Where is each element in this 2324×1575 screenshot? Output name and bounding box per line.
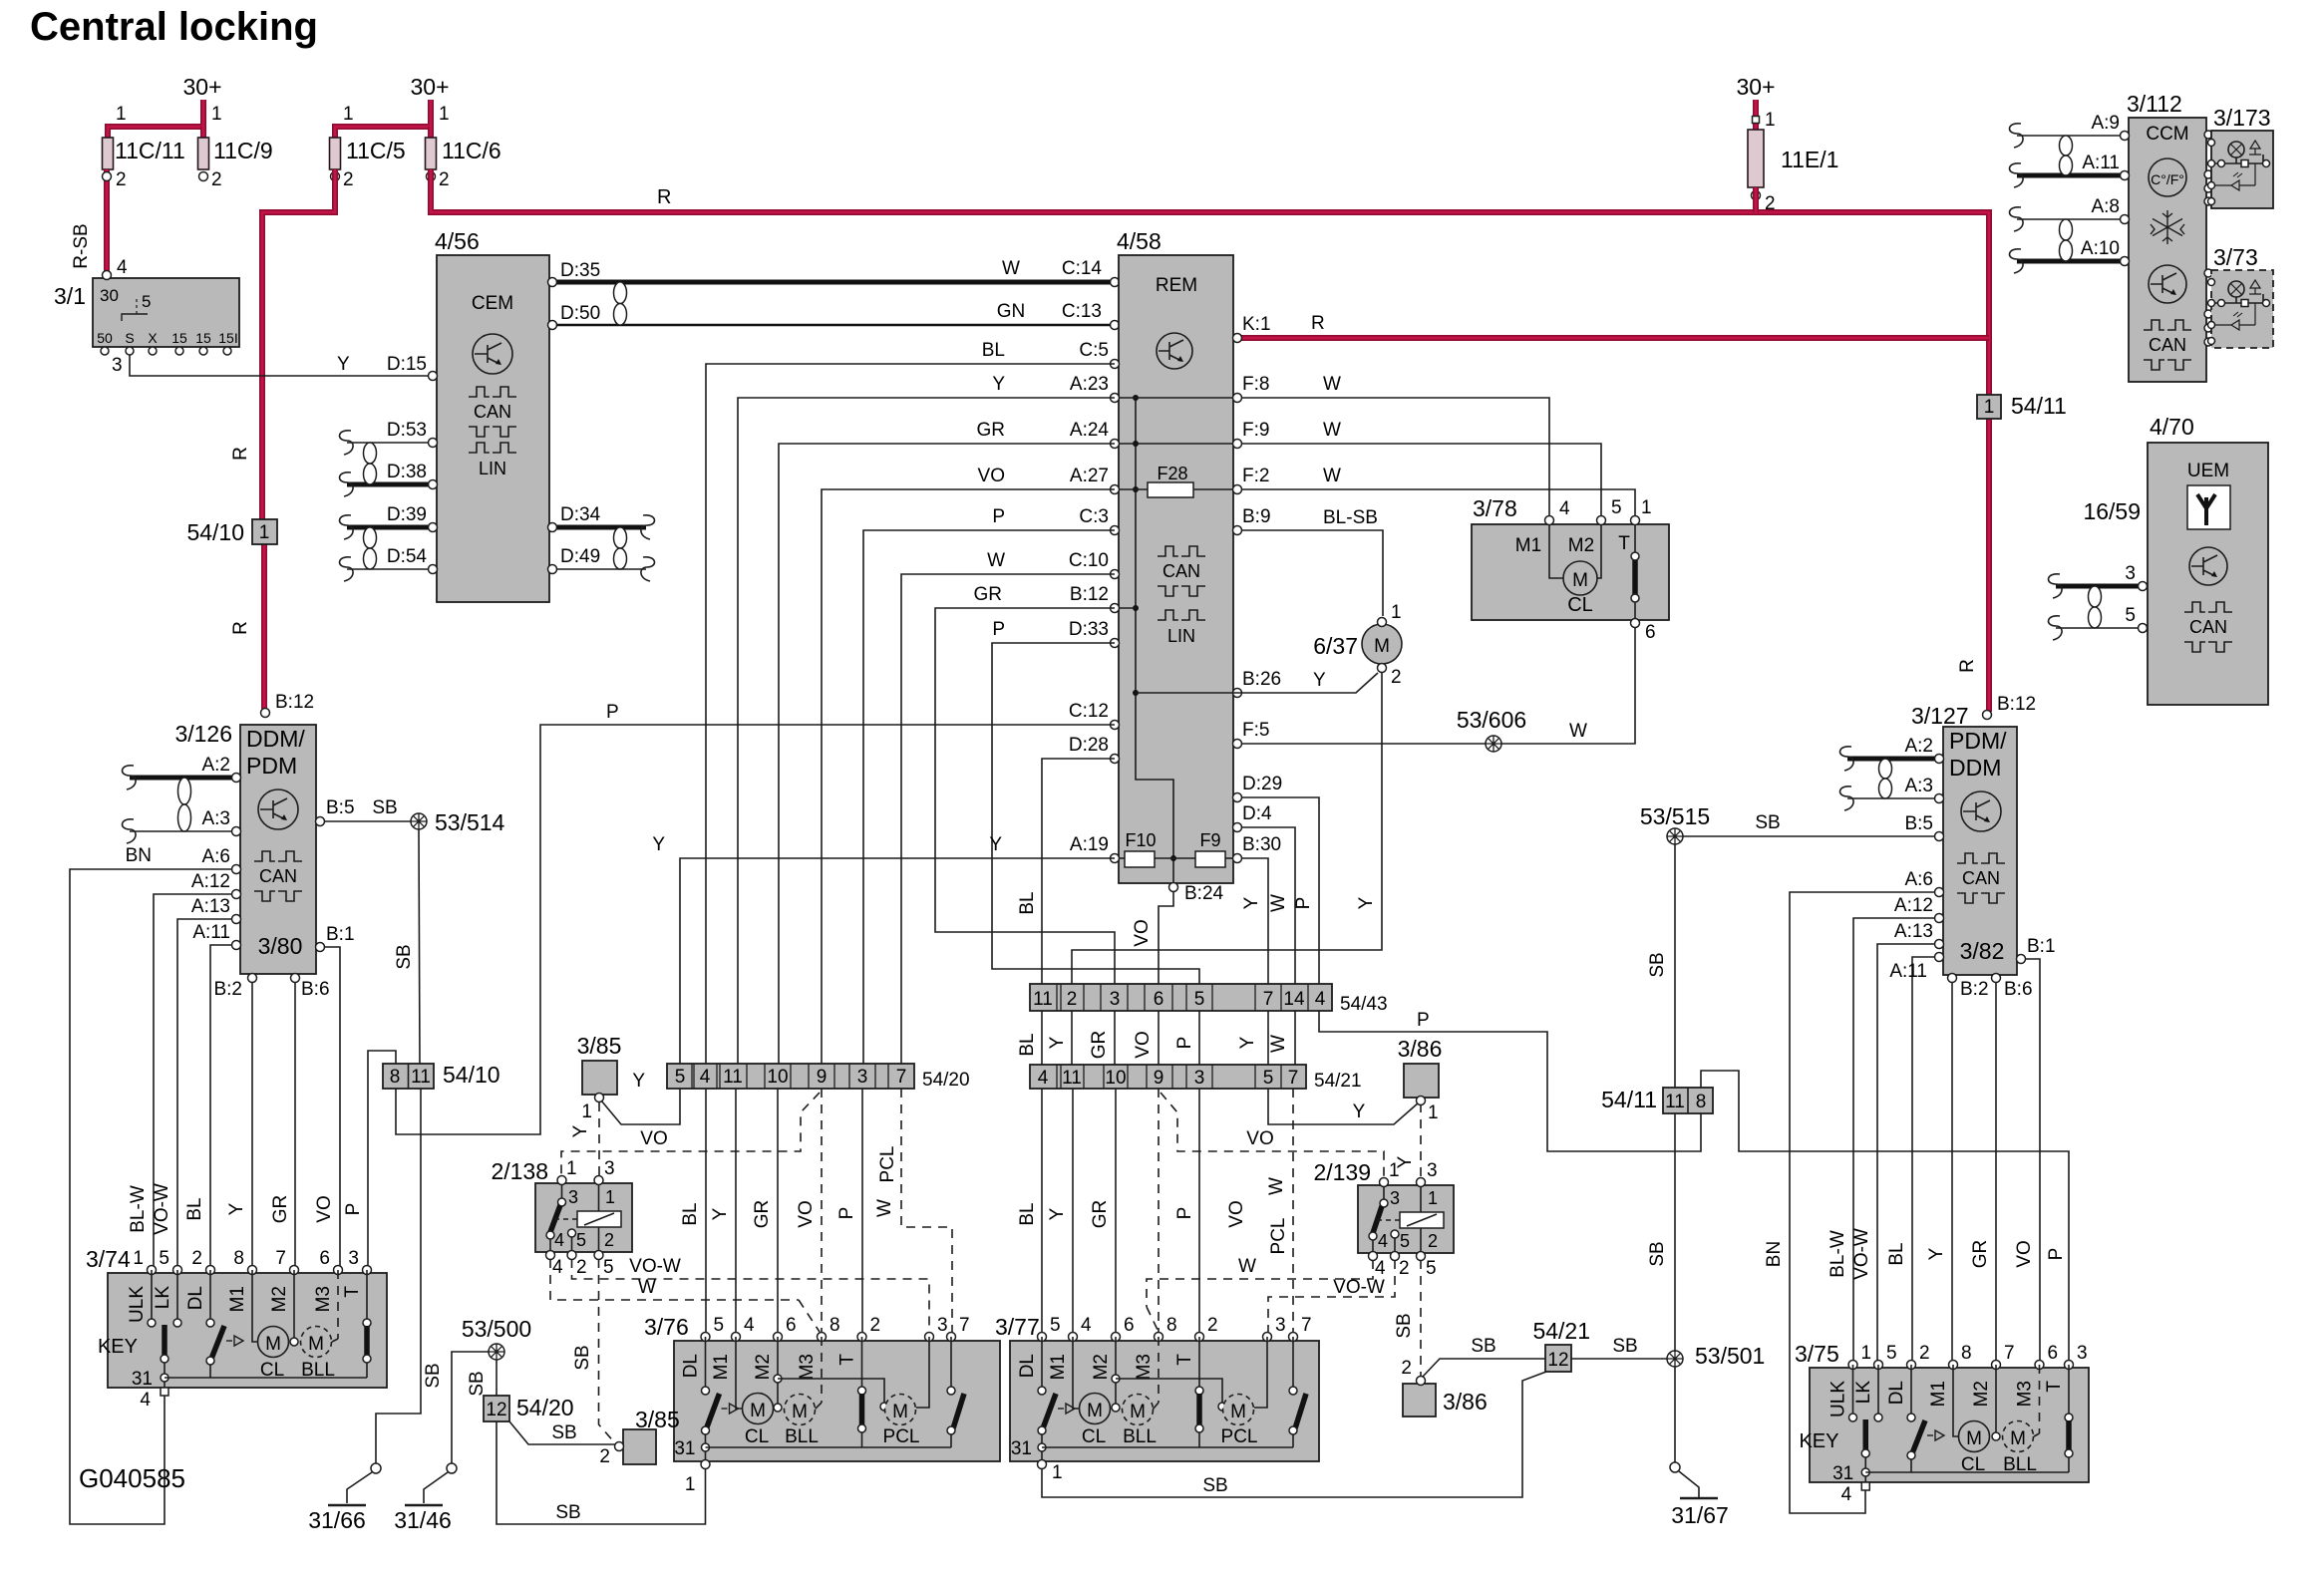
- svg-text:M: M: [308, 1334, 324, 1355]
- wire P REM D:33 to 54/43 pin 5: [992, 643, 1199, 984]
- svg-text:3/78: 3/78: [1473, 495, 1517, 521]
- CEM pins D:39 D:54 twisted pair: [347, 525, 433, 530]
- svg-text:P: P: [606, 702, 619, 723]
- upper electronic module UEM 4/70: [2148, 443, 2268, 705]
- ignition switch position icon: [122, 314, 148, 321]
- wire Y 54/43 pin 7 to 54/21 pin 5: [1267, 1011, 1269, 1065]
- CCM pins A:9 A:11 twisted pair: [2017, 135, 2125, 137]
- svg-text:S: S: [125, 330, 134, 346]
- svg-text:F:5: F:5: [1242, 720, 1269, 741]
- svg-text:F:8: F:8: [1242, 374, 1269, 395]
- svg-text:2: 2: [1428, 1231, 1438, 1251]
- svg-text:1: 1: [116, 104, 127, 125]
- wire Y 3/85 pin 1 to 54/20 pin 5: [601, 1089, 680, 1124]
- svg-text:GR: GR: [752, 1200, 773, 1229]
- 3/75 M3 wire: [2039, 1365, 2041, 1433]
- svg-text:7: 7: [1263, 989, 1274, 1010]
- svg-text:Y: Y: [1353, 1102, 1366, 1122]
- svg-text:3/74: 3/74: [86, 1246, 131, 1272]
- svg-text:1: 1: [1391, 602, 1402, 623]
- svg-text:54/21: 54/21: [1532, 1318, 1590, 1344]
- svg-text:3/126: 3/126: [174, 721, 232, 747]
- svg-text:VO: VO: [1133, 1031, 1154, 1058]
- svg-text:LIN: LIN: [479, 459, 506, 478]
- 3/75 motor BLL: [1992, 1432, 2000, 1440]
- svg-text:F:9: F:9: [1242, 420, 1269, 441]
- svg-text:R: R: [1957, 659, 1978, 673]
- 3/76 M3 wire: [821, 1337, 823, 1403]
- svg-text:M: M: [892, 1402, 908, 1422]
- connector 54/20: [667, 1064, 914, 1089]
- svg-text:M: M: [1966, 1428, 1982, 1449]
- svg-text:2: 2: [439, 169, 450, 190]
- svg-text:CL: CL: [1082, 1426, 1106, 1447]
- svg-text:5: 5: [1400, 1231, 1410, 1251]
- svg-text:P: P: [1417, 1010, 1430, 1031]
- PDM pins A:2 A:3 twisted pair: [1847, 757, 1939, 762]
- svg-text:W: W: [1323, 420, 1341, 441]
- svg-text:T: T: [1618, 533, 1630, 554]
- 3/75 pin 4: [1861, 1482, 1869, 1490]
- svg-text:DDM: DDM: [1949, 755, 2001, 781]
- PDM pin B:2 wire Y to 3/75 pin 8: [1951, 978, 1953, 1361]
- splice 53/514: [411, 813, 427, 829]
- svg-text:M: M: [792, 1402, 808, 1422]
- svg-text:B:1: B:1: [326, 924, 355, 945]
- CCM snowflake icon: [2151, 210, 2184, 244]
- 3/74 M3 wire: [337, 1270, 339, 1339]
- svg-text:M2: M2: [1971, 1381, 1992, 1407]
- wire P 54/21 pin 3 to 3/77 pin 2: [1198, 1089, 1200, 1334]
- svg-text:BL-SB: BL-SB: [1323, 507, 1378, 528]
- svg-text:7: 7: [1288, 1068, 1299, 1089]
- wire R fuse 11C/5 to connector 54/10 pin 1 to DDM B:12: [262, 169, 335, 519]
- svg-text:11: 11: [1033, 989, 1053, 1010]
- svg-text:PDM/: PDM/: [1949, 728, 2007, 754]
- svg-text:W: W: [1238, 1256, 1256, 1277]
- svg-text:SB: SB: [1202, 1475, 1227, 1496]
- svg-text:D:34: D:34: [560, 504, 601, 525]
- svg-text:31/67: 31/67: [1671, 1502, 1729, 1528]
- UEM antenna icon: [2187, 485, 2230, 529]
- 3/74 KEY switch: [151, 1270, 153, 1321]
- wire SB 53/501 to connector 54/21 pin 12: [1571, 1358, 1667, 1360]
- svg-text:7: 7: [1301, 1315, 1312, 1336]
- ignition switch 3/1: [93, 278, 239, 347]
- svg-text:8: 8: [1696, 1092, 1707, 1112]
- svg-text:BL: BL: [680, 1202, 701, 1225]
- svg-text:B:26: B:26: [1242, 669, 1281, 690]
- svg-text:11: 11: [1062, 1068, 1082, 1089]
- 3/76 motor PCL: [880, 1403, 888, 1411]
- CEM LIN icon: [469, 443, 516, 453]
- svg-text:D:33: D:33: [1069, 619, 1109, 640]
- svg-text:M1: M1: [1515, 535, 1541, 556]
- svg-text:PCL: PCL: [877, 1146, 898, 1183]
- svg-text:5: 5: [1194, 989, 1205, 1010]
- svg-text:BL-W: BL-W: [128, 1185, 149, 1233]
- 3/75 DL switch: [1910, 1365, 1912, 1416]
- wire W CEM D:35 to REM C:14 (bus): [552, 280, 1115, 285]
- wire SB splice 53/515 through 54/11 pin 11 to splice 53/501: [1674, 844, 1676, 1088]
- svg-text:M: M: [265, 1334, 281, 1355]
- 3/76 switch T: [861, 1337, 863, 1389]
- svg-text:2: 2: [211, 169, 222, 190]
- svg-text:SB: SB: [1394, 1313, 1415, 1338]
- lighting unit 3/173: [2211, 131, 2273, 208]
- svg-text:Y: Y: [1313, 670, 1326, 691]
- 3/77 M3 wire: [1158, 1337, 1160, 1403]
- svg-text:GR: GR: [270, 1195, 291, 1224]
- svg-text:Central locking: Central locking: [30, 5, 318, 49]
- svg-text:BL-W: BL-W: [1827, 1230, 1848, 1278]
- wire GR 54/21 pin 10 to 3/77 pin 6: [1115, 1089, 1117, 1334]
- svg-text:ULK: ULK: [1828, 1381, 1849, 1417]
- wire VO branch 54/20 pin 9 to relay 2/138 pin 1: [561, 1093, 820, 1180]
- svg-text:8: 8: [233, 1248, 244, 1269]
- 3/77 motor BLL: [1123, 1395, 1154, 1425]
- svg-text:D:29: D:29: [1242, 774, 1282, 794]
- wire Y 3/86 pin 1 to relay 2/139 pin 3 (dashed): [1420, 1103, 1422, 1180]
- PDM pin A:12 wire BL-W to 3/75 pin 1: [1853, 918, 1939, 1361]
- wire W REM F:9 to 3/78 pin 5: [1241, 444, 1601, 517]
- svg-text:B:6: B:6: [301, 979, 330, 1000]
- DDM pin B:1 wire VO to 3/74 pin 6: [320, 947, 340, 1266]
- svg-text:C:10: C:10: [1069, 550, 1109, 571]
- svg-text:A:12: A:12: [191, 871, 230, 892]
- svg-text:3: 3: [348, 1248, 359, 1269]
- wire SB relay 2/139 pin 2 to 3/86 pin 2 (dashed): [1420, 1260, 1422, 1377]
- wire PCL 54/20 pin 7 to 3/76 pin 7: [901, 1089, 952, 1334]
- svg-text:A:9: A:9: [2091, 113, 2120, 134]
- svg-text:4: 4: [1081, 1315, 1092, 1336]
- svg-text:B:2: B:2: [1960, 979, 1989, 1000]
- svg-text:2: 2: [870, 1315, 881, 1336]
- svg-text:2: 2: [1207, 1315, 1218, 1336]
- relay 2/139 coil: [1400, 1212, 1444, 1228]
- svg-text:P: P: [2046, 1248, 2067, 1261]
- svg-text:1: 1: [1861, 1343, 1872, 1364]
- svg-text:5: 5: [1050, 1315, 1061, 1336]
- wire Y REM B:30 to 54/43 pin 7: [1241, 858, 1268, 984]
- svg-text:VO: VO: [2014, 1240, 2035, 1267]
- wire R-SB fuse 11C/11 pin 2 to 3/1 pin 4: [104, 169, 110, 271]
- 3/77 DL switch: [1041, 1337, 1043, 1389]
- svg-text:4: 4: [700, 1067, 711, 1088]
- 3/77 pin 1: [1038, 1460, 1047, 1469]
- svg-text:W: W: [1323, 374, 1341, 395]
- svg-text:B:6: B:6: [2004, 979, 2033, 1000]
- svg-text:1: 1: [439, 104, 450, 125]
- svg-text:30: 30: [100, 286, 119, 305]
- svg-text:CEM: CEM: [472, 293, 513, 314]
- svg-text:VO: VO: [1226, 1200, 1247, 1227]
- svg-text:11: 11: [723, 1067, 743, 1088]
- svg-text:A:11: A:11: [2082, 153, 2120, 173]
- svg-text:P: P: [992, 619, 1005, 640]
- svg-text:CAN: CAN: [259, 866, 297, 886]
- svg-text:A:13: A:13: [191, 896, 230, 917]
- wire GN CEM D:50 to REM C:13 (bus): [552, 324, 1115, 327]
- svg-text:54/11: 54/11: [1601, 1087, 1657, 1112]
- wire VO-W relay 2/139 pin 5 to 3/77 pin 3: [1268, 1260, 1395, 1334]
- wire R fuse 11C/6 long feed to right side: [431, 169, 1989, 712]
- svg-text:T: T: [1174, 1354, 1195, 1366]
- svg-text:4/58: 4/58: [1117, 228, 1162, 254]
- relay 2/138 coil: [577, 1211, 621, 1227]
- svg-text:54/20: 54/20: [922, 1070, 970, 1091]
- svg-text:4: 4: [1559, 498, 1570, 519]
- svg-text:1: 1: [1765, 110, 1776, 131]
- svg-text:53/514: 53/514: [435, 809, 505, 835]
- svg-text:T: T: [2044, 1381, 2065, 1393]
- fuse 11C/6: [426, 138, 437, 169]
- svg-text:F:2: F:2: [1242, 466, 1269, 486]
- svg-text:A:3: A:3: [201, 808, 230, 829]
- svg-text:8: 8: [1961, 1343, 1972, 1364]
- fuse 11E/1: [1753, 100, 1759, 132]
- wire VO 54/21 pin 9 to 3/77 pin 8 (M3): [1158, 1089, 1160, 1334]
- svg-text:5: 5: [1611, 497, 1622, 518]
- svg-text:12: 12: [486, 1400, 506, 1420]
- CEM pins D:34 D:49 twisted pair right: [552, 525, 646, 530]
- relay 2/139 switch contact: [1383, 1186, 1385, 1200]
- svg-text:2: 2: [1391, 667, 1402, 688]
- connector 54/20 pin 12: [484, 1396, 509, 1421]
- svg-text:2: 2: [1399, 1258, 1410, 1279]
- svg-text:6: 6: [1645, 622, 1656, 643]
- svg-text:8: 8: [1166, 1315, 1177, 1336]
- PDM pin B:1 wire VO to 3/75 pin 6: [2021, 959, 2040, 1361]
- svg-text:M3: M3: [797, 1354, 818, 1380]
- svg-text:Y: Y: [337, 354, 350, 375]
- door lock unit 3/75: [1810, 1368, 2089, 1482]
- svg-text:C:13: C:13: [1062, 301, 1102, 322]
- svg-text:6: 6: [1154, 989, 1164, 1010]
- svg-text:3: 3: [1110, 989, 1121, 1010]
- wire GR REM B:12 to 54/43 pin 3: [935, 608, 1115, 984]
- svg-text:9: 9: [817, 1067, 828, 1088]
- connector 54/10 pin 1: [252, 519, 277, 544]
- wire BL-SB REM B:9 to motor 6/37 pin 1: [1241, 530, 1383, 616]
- svg-text:A:23: A:23: [1070, 374, 1109, 395]
- wire BL 54/20 pin 4 to 3/76 pin 5: [705, 1089, 707, 1334]
- wire W relay 2/138 pin 4 to 3/76 pin 8: [550, 1259, 799, 1300]
- svg-text:M2: M2: [1568, 535, 1594, 556]
- wire BL 54/43 pin 11 to 54/21 pin 4: [1041, 1011, 1043, 1065]
- svg-text:Y: Y: [1241, 896, 1262, 909]
- REM transistor icon: [1157, 333, 1192, 369]
- wire GR 54/20 pin 10 to 3/76 pin 6: [777, 1089, 779, 1334]
- 3/76 M2 node and link to PCL: [777, 1337, 779, 1407]
- svg-text:3/112: 3/112: [2127, 91, 2182, 117]
- svg-text:C°/F°: C°/F°: [2151, 171, 2184, 187]
- svg-text:2: 2: [1401, 1358, 1412, 1379]
- svg-text:12: 12: [1547, 1350, 1568, 1371]
- svg-text:7: 7: [2004, 1343, 2015, 1364]
- 3/74 DL switch: [209, 1270, 211, 1321]
- svg-text:6: 6: [1124, 1315, 1135, 1336]
- switch module 3/85 (upper): [582, 1061, 617, 1095]
- svg-text:BLL: BLL: [301, 1360, 335, 1381]
- svg-text:CAN: CAN: [2189, 617, 2227, 637]
- svg-text:SB: SB: [467, 1371, 488, 1396]
- svg-text:BLL: BLL: [2003, 1454, 2037, 1475]
- wire W 54/43 pin 14 to 54/21 pin 7: [1294, 1011, 1296, 1065]
- svg-text:K:1: K:1: [1242, 314, 1271, 335]
- svg-text:P: P: [1174, 1037, 1195, 1050]
- wire SB 54/20 pin 12 to 3/85 pin 2: [509, 1421, 615, 1444]
- svg-text:3: 3: [937, 1315, 948, 1336]
- svg-text:10: 10: [767, 1067, 788, 1088]
- svg-text:31: 31: [132, 1369, 153, 1390]
- svg-text:3: 3: [857, 1067, 868, 1088]
- CEM pin D:15: [429, 372, 438, 381]
- svg-text:54/10: 54/10: [186, 519, 244, 545]
- svg-text:R-SB: R-SB: [71, 223, 92, 268]
- svg-text:11C/11: 11C/11: [115, 138, 185, 163]
- svg-text:SB: SB: [1647, 952, 1668, 977]
- wire GR REM A:24 to 54/20 pin 10: [779, 444, 1115, 1064]
- wire Y ignition S to CEM D:15: [130, 355, 432, 376]
- wire VO REM B:24 to 54/43 pin 6: [1159, 891, 1173, 984]
- svg-text:1: 1: [211, 104, 222, 125]
- svg-text:31: 31: [1011, 1438, 1032, 1459]
- svg-text:A:10: A:10: [2081, 238, 2120, 259]
- relay 2/138 switch contact: [561, 1184, 563, 1199]
- wire PCL 54/21 pin 7 to 3/77 pin 7: [1292, 1089, 1294, 1334]
- svg-text:W: W: [1002, 258, 1020, 279]
- svg-text:M1: M1: [1928, 1381, 1949, 1407]
- connector 54/43: [1030, 984, 1332, 1011]
- wire W REM D:4 to 54/43 pin 14: [1241, 827, 1295, 984]
- svg-text:6: 6: [2048, 1343, 2059, 1364]
- wire VO 54/20 pin 9 to 3/76 pin 8 (M3): [821, 1089, 823, 1334]
- svg-text:15I: 15I: [218, 330, 237, 346]
- 3/75 KEY switch: [1852, 1365, 1854, 1416]
- ground lead 31/66: [371, 1463, 381, 1473]
- REM right pins: [1233, 334, 1242, 343]
- svg-text:D:4: D:4: [1242, 803, 1272, 824]
- svg-text:LK: LK: [1853, 1381, 1874, 1405]
- wire R fuse 11E/1 to main feed: [1753, 187, 1759, 212]
- wire Y REM B:26 to motor 6/37 pin 2: [1233, 673, 1378, 693]
- 3/76 DL switch: [705, 1337, 707, 1389]
- svg-text:5: 5: [603, 1257, 614, 1278]
- wire R REM K:1 to 54/11 feed: [1237, 335, 1989, 341]
- svg-text:KEY: KEY: [1799, 1430, 1838, 1452]
- 3/74 internal ground rail 31: [161, 1374, 168, 1382]
- svg-text:3: 3: [568, 1187, 578, 1207]
- svg-text:9: 9: [1154, 1068, 1164, 1089]
- svg-text:F10: F10: [1125, 830, 1156, 850]
- svg-text:D:50: D:50: [560, 303, 600, 324]
- relay 2/138: [535, 1183, 632, 1252]
- wire R 30+ drop to fuses 11C/5 and 11C/6: [335, 100, 431, 140]
- svg-text:5: 5: [576, 1230, 586, 1250]
- door lock unit 3/77: [1010, 1341, 1319, 1461]
- connector 54/11 pins 11 and 8: [1663, 1088, 1713, 1113]
- svg-text:DDM/: DDM/: [246, 726, 305, 752]
- 3/76 motor BLL: [785, 1395, 816, 1425]
- svg-text:54/43: 54/43: [1340, 994, 1388, 1015]
- svg-text:CCM: CCM: [2146, 124, 2188, 145]
- svg-text:A:11: A:11: [1889, 961, 1927, 982]
- svg-text:Y: Y: [632, 1071, 645, 1092]
- DDM pin B:6 wire GR to 3/74 pin 7: [294, 978, 296, 1266]
- wire SB 54/21 pin 12 to 3/86 pin 2: [1422, 1359, 1545, 1378]
- svg-text:B:12: B:12: [275, 692, 314, 713]
- svg-text:D:49: D:49: [560, 546, 600, 567]
- svg-text:3/75: 3/75: [1795, 1341, 1839, 1367]
- svg-text:W: W: [987, 550, 1005, 571]
- svg-text:VO-W: VO-W: [152, 1183, 172, 1235]
- svg-text:53/500: 53/500: [462, 1316, 531, 1342]
- svg-text:53/501: 53/501: [1695, 1343, 1765, 1369]
- lighting unit 3/73: [2211, 270, 2273, 348]
- svg-text:3: 3: [1390, 1188, 1400, 1208]
- svg-text:7: 7: [896, 1067, 907, 1088]
- CEM pins D:53 D:38 twisted pair: [347, 442, 433, 444]
- svg-text:GR: GR: [1089, 1031, 1110, 1060]
- svg-text:A:2: A:2: [201, 755, 230, 776]
- svg-text:1: 1: [133, 1248, 144, 1269]
- svg-text:VO: VO: [978, 466, 1005, 486]
- svg-text:DL: DL: [1886, 1381, 1907, 1405]
- svg-text:4: 4: [744, 1315, 755, 1336]
- svg-text:M1: M1: [711, 1354, 732, 1380]
- REM pin B:24: [1169, 883, 1178, 892]
- svg-text:VO: VO: [640, 1128, 667, 1149]
- CCM right pins to 3/73: [2204, 269, 2212, 277]
- svg-text:M3: M3: [2015, 1381, 2036, 1407]
- wire VO REM A:27 to 54/20 pin 9: [822, 489, 1115, 1064]
- svg-text:CAN: CAN: [2149, 335, 2186, 355]
- door lock unit 3/76: [674, 1341, 1000, 1461]
- svg-text:31: 31: [1832, 1463, 1853, 1484]
- svg-text:BL: BL: [1017, 891, 1038, 914]
- svg-text:1: 1: [1428, 1102, 1439, 1123]
- wire VO-W relay 2/138 pin 5 to 3/76 pin 3: [572, 1259, 930, 1334]
- svg-text:BL: BL: [982, 340, 1005, 361]
- svg-text:VO: VO: [314, 1195, 335, 1222]
- svg-text:3: 3: [2077, 1343, 2088, 1364]
- svg-text:7: 7: [275, 1248, 286, 1269]
- twisted pair symbol C:14/C:13: [614, 282, 627, 304]
- driver door module DDM 3/126: [240, 725, 316, 974]
- svg-text:PCL: PCL: [1221, 1426, 1258, 1447]
- CEM transistor icon: [473, 334, 512, 374]
- svg-text:GN: GN: [997, 301, 1026, 322]
- svg-text:GR: GR: [1970, 1240, 1991, 1269]
- svg-text:A:6: A:6: [1904, 869, 1933, 890]
- 3/75 switch T: [2068, 1365, 2070, 1416]
- svg-text:3/86: 3/86: [1398, 1036, 1443, 1062]
- wire SB 54/21 pin 12 to 3/77 pin 1: [1042, 1372, 1546, 1497]
- svg-text:11: 11: [411, 1067, 431, 1088]
- svg-text:P: P: [836, 1207, 857, 1220]
- svg-text:4: 4: [117, 257, 128, 278]
- DDM pin B:12: [261, 709, 270, 718]
- svg-text:5: 5: [159, 1248, 169, 1269]
- wire Y 3/86 pin 1 to 54/21 pin 5: [1268, 1089, 1419, 1124]
- svg-text:CAN: CAN: [1962, 868, 2000, 888]
- wire BL REM C:5 to 54/20 pin 4: [706, 364, 1115, 1064]
- svg-text:F28: F28: [1157, 464, 1187, 483]
- svg-text:15: 15: [195, 330, 211, 346]
- svg-text:3/86: 3/86: [1443, 1389, 1488, 1415]
- svg-text:3: 3: [1275, 1315, 1286, 1336]
